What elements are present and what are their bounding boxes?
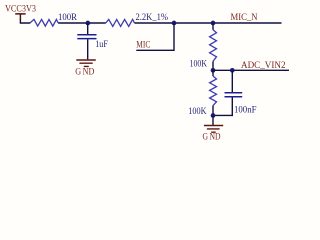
capacitor C1 stem top bbox=[87, 23, 89, 34]
resistor R4 stem top bbox=[212, 70, 214, 76]
svg-text:100K: 100K bbox=[190, 58, 208, 68]
power VCC3V3 bar symbol bbox=[15, 13, 25, 20]
junction node ADC rail left bbox=[211, 68, 216, 73]
wire R2 to right end MIC_N bbox=[135, 22, 282, 24]
junction node C2 top bbox=[230, 68, 235, 73]
capacitor C2 plates bbox=[225, 93, 243, 97]
ground GND2 symbol bbox=[204, 126, 223, 133]
resistor R3 stem top bbox=[212, 23, 214, 30]
capacitor C1 plates bbox=[77, 35, 96, 39]
junction node divider top bbox=[211, 21, 216, 26]
svg-text:MIC: MIC bbox=[136, 40, 150, 50]
resistor R3 100K zigzag bbox=[210, 30, 217, 62]
svg-text:100K: 100K bbox=[188, 106, 207, 116]
ground GND1 symbol bbox=[76, 60, 96, 66]
wire MIC branch bbox=[136, 23, 174, 50]
junction node at C1 bbox=[85, 21, 90, 26]
svg-text:2.2K_1%: 2.2K_1% bbox=[136, 12, 169, 22]
svg-text:G ND: G ND bbox=[203, 131, 221, 141]
capacitor C2 stem top bbox=[231, 70, 233, 92]
wire R1 to R2 bbox=[58, 22, 105, 24]
svg-text:100nF: 100nF bbox=[234, 105, 257, 115]
resistor R2 2.2K zigzag bbox=[106, 19, 135, 26]
capacitor C2 stem bottom and wire to R4 bbox=[213, 97, 232, 115]
resistor R3 stem bottom bbox=[212, 61, 214, 70]
wire ADC rail bbox=[213, 69, 289, 71]
resistor R1 100R zigzag bbox=[30, 19, 58, 26]
resistor R4 stem bottom bbox=[212, 106, 214, 116]
svg-text:ADC_VIN2: ADC_VIN2 bbox=[241, 60, 286, 70]
resistor R4 100K zigzag bbox=[210, 76, 217, 106]
svg-text:G ND: G ND bbox=[75, 67, 95, 77]
junction node MIC branch bbox=[172, 21, 177, 26]
svg-text:VCC3V3: VCC3V3 bbox=[5, 4, 36, 14]
junction node bottom bbox=[211, 113, 216, 118]
svg-text:1uF: 1uF bbox=[95, 39, 108, 49]
svg-text:100R: 100R bbox=[58, 12, 77, 22]
wire from VCC to R1 bbox=[20, 20, 30, 24]
ground GND2 stem bbox=[212, 115, 214, 125]
svg-text:MIC_N: MIC_N bbox=[231, 12, 258, 22]
capacitor C1 stem bottom wire bbox=[87, 39, 89, 59]
